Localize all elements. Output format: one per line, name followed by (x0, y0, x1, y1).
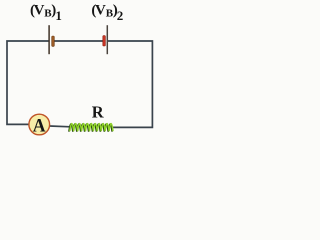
battery (VB)1 short thick plate (52, 36, 55, 46)
battery (VB)1 long plate (48, 25, 50, 54)
resistor R coil dark under-strokes (69, 124, 112, 132)
battery voltage label (VB)1 (30, 2, 62, 23)
wire ammeter to resistor (50, 125, 71, 128)
svg-text:2: 2 (117, 8, 124, 23)
wire top-right + right side + bottom-right (108, 41, 153, 127)
svg-text:V: V (34, 2, 45, 18)
battery (VB)2 long plate (106, 25, 108, 54)
svg-text:R: R (92, 103, 105, 122)
svg-text:A: A (33, 115, 46, 136)
resistor R coil green strokes (70, 124, 113, 132)
svg-text:V: V (95, 2, 106, 18)
wire top-left + left side + bottom-left (7, 41, 49, 124)
svg-text:1: 1 (55, 8, 62, 23)
battery voltage label (VB)2 (91, 2, 123, 23)
ammeter A body (29, 114, 50, 135)
wire between battery 1 and battery 2 (54, 40, 103, 42)
battery (VB)2 short thick plate (103, 36, 106, 46)
